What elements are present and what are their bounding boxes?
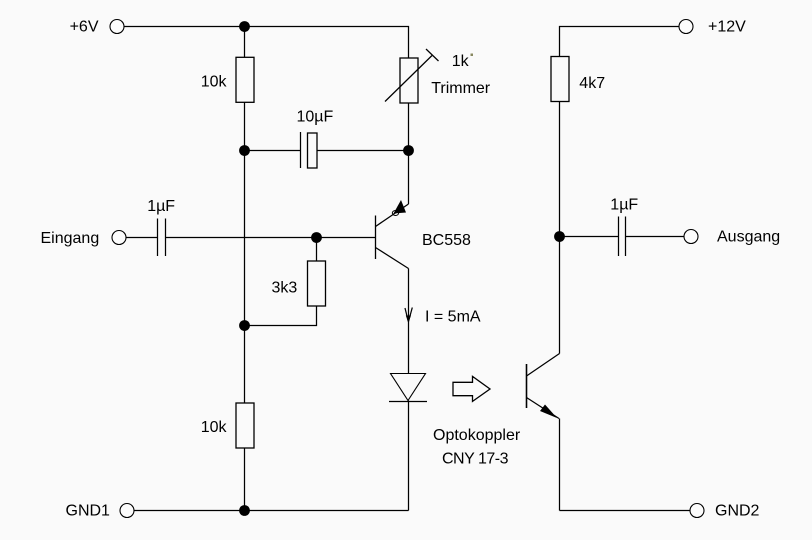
svg-text:Trimmer: Trimmer [431, 80, 491, 97]
svg-text:GND1: GND1 [66, 503, 111, 520]
svg-text:4k7: 4k7 [579, 75, 605, 92]
svg-text:GND2: GND2 [715, 503, 760, 520]
svg-text:+12V: +12V [708, 19, 746, 36]
resistor R3 3k3 [245, 238, 326, 326]
wire input row to base [166, 237, 376, 239]
wire bottom right rail [560, 510, 691, 512]
wire LED cathode down [408, 401, 410, 511]
node GND1 terminal [66, 503, 135, 520]
transistor Q1 BC558 [376, 200, 472, 269]
node junction R4 on bottom rail [239, 505, 250, 516]
current arrow I = 5mA [405, 308, 481, 326]
wire R1 bottom lead [244, 102, 246, 150]
svg-text:I = 5mA: I = 5mA [425, 308, 481, 325]
svg-text:10k: 10k [201, 74, 228, 91]
wire top rail from +6V to trimmer [124, 27, 409, 59]
node junction R3 return on left rail [239, 320, 250, 331]
wire R2 bottom to output node [559, 102, 561, 237]
wire R1 top lead [244, 27, 246, 58]
svg-text:Eingang: Eingang [41, 230, 100, 247]
wire left rail middle segment [244, 151, 246, 326]
label Optokoppler CNY 17-3 [433, 427, 521, 468]
node junction top of R1 [239, 21, 250, 32]
svg-text:1µF: 1µF [610, 197, 638, 214]
wire emitter vertical lead [408, 151, 410, 205]
svg-text:10µF: 10µF [297, 109, 334, 126]
capacitor C1 1uF input [126, 198, 175, 256]
wire top right rail [560, 27, 680, 58]
wire opto emitter down [559, 419, 561, 511]
diode D1 LED of optocoupler [389, 374, 427, 402]
svg-text:CNY 17-3: CNY 17-3 [442, 451, 509, 468]
capacitor C2 10uF [245, 109, 409, 169]
wire left rail lower segment [244, 326, 246, 404]
svg-text:1k: 1k [452, 53, 470, 70]
resistor R5 1k trimmer [385, 49, 491, 103]
svg-text:Optokoppler: Optokoppler [433, 427, 521, 444]
coupling block arrow [453, 376, 490, 401]
svg-text:BC558: BC558 [422, 232, 471, 249]
node junction base / R3 [311, 232, 322, 243]
svg-text:+6V: +6V [70, 19, 99, 36]
node junction output [554, 231, 565, 242]
resistor R1 10k [201, 57, 254, 102]
node +12V terminal [679, 19, 746, 36]
node junction emitter / trimmer / C2 [403, 145, 414, 156]
svg-text:10k: 10k [201, 419, 228, 436]
node GND2 terminal [690, 503, 760, 520]
wire collector to LED [408, 269, 410, 374]
svg-text:1µF: 1µF [147, 198, 175, 215]
svg-text:Ausgang: Ausgang [717, 229, 780, 246]
wire trimmer bottom lead [408, 103, 410, 151]
node Ausgang terminal [684, 229, 780, 246]
resistor R2 4k7 [551, 57, 605, 102]
node junction left of C2 [239, 145, 250, 156]
node Eingang terminal [41, 230, 127, 247]
wire R4 bottom lead [244, 448, 246, 511]
transistor Q2 optocoupler phototransistor [527, 354, 560, 419]
capacitor C3 1uF output [560, 197, 685, 257]
svg-text:3k3: 3k3 [272, 280, 298, 297]
node +6V terminal [70, 19, 124, 36]
wire right rail to opto collector [559, 237, 561, 354]
resistor R4 10k [201, 403, 254, 448]
wire bottom left rail [134, 510, 409, 512]
